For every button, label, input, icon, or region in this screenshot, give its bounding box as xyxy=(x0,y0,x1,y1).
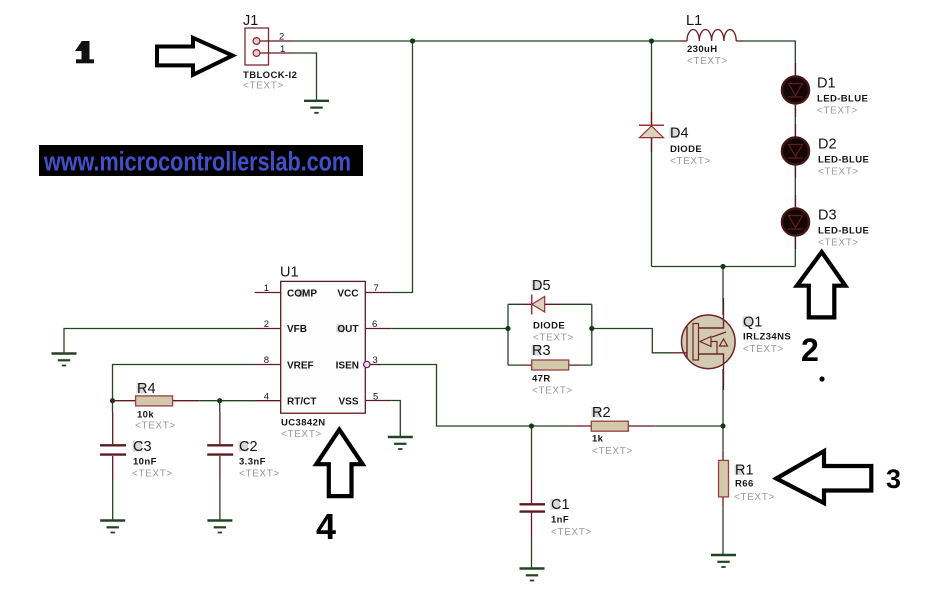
svg-text:<TEXT>: <TEXT> xyxy=(532,386,573,397)
arrow 4 pointing up under U1 xyxy=(316,430,362,497)
svg-text:<TEXT>: <TEXT> xyxy=(687,56,728,67)
svg-text:<TEXT>: <TEXT> xyxy=(817,106,858,117)
svg-text:<TEXT>: <TEXT> xyxy=(743,344,784,355)
ground at VFB xyxy=(52,354,77,366)
svg-text:LED-BLUE: LED-BLUE xyxy=(818,226,869,237)
svg-text:OUT: OUT xyxy=(337,324,358,335)
wire C3 column xyxy=(112,401,114,520)
svg-text:UC3842N: UC3842N xyxy=(281,418,326,429)
svg-text:TBLOCK-I2: TBLOCK-I2 xyxy=(243,70,297,81)
junction node top rail / VCC riser xyxy=(410,38,415,43)
svg-text:<TEXT>: <TEXT> xyxy=(135,421,176,432)
arrow 3 pointing left at R1 xyxy=(776,451,871,503)
svg-text:R66: R66 xyxy=(735,479,754,490)
svg-text:D5: D5 xyxy=(532,278,551,294)
connector J1 xyxy=(243,13,297,92)
junction node R2 rail / Q1 source / R1 xyxy=(720,423,725,428)
wire R1 column xyxy=(722,426,724,554)
svg-text:<TEXT>: <TEXT> xyxy=(239,469,280,480)
svg-text:230uH: 230uH xyxy=(687,44,718,55)
svg-text:47R: 47R xyxy=(532,374,551,385)
svg-text:R1: R1 xyxy=(735,463,754,479)
wire D5/R3 parallel frame left side xyxy=(507,304,509,365)
svg-text:LED-BLUE: LED-BLUE xyxy=(817,94,868,105)
capacitor C3 10nF xyxy=(100,412,173,480)
svg-text:10nF: 10nF xyxy=(133,457,157,468)
svg-text:8: 8 xyxy=(264,355,269,366)
LED D2 xyxy=(782,124,869,178)
svg-text:R3: R3 xyxy=(532,343,551,359)
svg-text:1: 1 xyxy=(264,283,269,294)
wire Q1 drain up to LED-chain bottom rail xyxy=(722,267,724,316)
wire Q1 source down to R2 rail xyxy=(722,369,724,426)
svg-text:VCC: VCC xyxy=(337,289,358,300)
ground at C2 xyxy=(207,521,232,533)
wire from L1 to top-right corner and down to D1 xyxy=(743,41,795,267)
ground at R1 xyxy=(711,555,736,567)
svg-text:<TEXT>: <TEXT> xyxy=(734,492,775,503)
arrow 2 pointing up near LEDs xyxy=(797,252,845,317)
U1 pin 3 ISEN stub with bubble xyxy=(364,355,380,368)
small dot under label 2 xyxy=(819,376,824,381)
svg-text:VREF: VREF xyxy=(287,361,314,372)
wire VREF pin 8 down to R4 node xyxy=(113,365,255,401)
svg-text:C1: C1 xyxy=(551,497,570,513)
U1 pin 5 VSS stub xyxy=(365,392,392,403)
wire C1 column xyxy=(531,426,533,568)
wire J1 pin 1 to ground xyxy=(294,53,317,100)
svg-text:1nF: 1nF xyxy=(551,515,569,526)
svg-text:<TEXT>: <TEXT> xyxy=(670,156,711,167)
resistor R3 47R xyxy=(521,343,580,397)
U1 pin 8 VREF stub xyxy=(255,355,281,366)
svg-text:www.microcontrollerslab.com: www.microcontrollerslab.com xyxy=(43,147,351,177)
ground at J1 pin 1 xyxy=(304,101,329,113)
svg-text:<TEXT>: <TEXT> xyxy=(281,429,322,440)
U1 pin 2 VFB stub xyxy=(255,319,281,330)
ground at C1 xyxy=(520,569,545,581)
svg-text:Q1: Q1 xyxy=(743,315,762,331)
wire C2 column xyxy=(219,401,221,520)
svg-text:VSS: VSS xyxy=(338,397,358,408)
wire R2 rail xyxy=(532,425,724,427)
svg-text:LED-BLUE: LED-BLUE xyxy=(818,155,869,166)
svg-text:C3: C3 xyxy=(133,439,152,455)
wire gate route from D5/R3 node to Q1 xyxy=(592,329,671,353)
svg-text:C2: C2 xyxy=(239,439,258,455)
wire D5 top branch xyxy=(508,303,592,305)
svg-text:2: 2 xyxy=(279,32,284,43)
svg-text:D3: D3 xyxy=(818,208,837,224)
wire RT/CT pin 4 to R4 right node xyxy=(200,400,255,402)
diode D5 xyxy=(523,278,574,344)
svg-text:<TEXT>: <TEXT> xyxy=(592,446,633,457)
wire ISEN pin 3 route down to R2 rail xyxy=(380,365,532,427)
svg-text:6: 6 xyxy=(372,319,377,330)
svg-text:DIODE: DIODE xyxy=(670,144,702,155)
wire VSS pin 5 to ground xyxy=(392,401,401,437)
svg-text:COMP: COMP xyxy=(287,289,317,300)
transistor Q1 IRLZ34NS xyxy=(671,298,791,390)
svg-text:1: 1 xyxy=(280,44,285,55)
U1 pin 6 OUT stub xyxy=(365,319,392,330)
svg-text:VFB: VFB xyxy=(287,324,307,335)
ground at VSS xyxy=(388,437,413,449)
ground at C3 xyxy=(100,521,125,533)
capacitor C2 3.3nF xyxy=(207,412,280,480)
svg-text:3: 3 xyxy=(886,464,901,494)
svg-text:D4: D4 xyxy=(670,126,689,142)
LED D3 xyxy=(782,195,869,249)
LED D1 xyxy=(782,63,868,117)
junction node R2 rail / C1 xyxy=(529,423,534,428)
svg-text:4: 4 xyxy=(264,392,269,403)
svg-text:5: 5 xyxy=(373,392,378,403)
svg-text:1k: 1k xyxy=(592,434,604,445)
inductor L1 230uH xyxy=(680,13,743,67)
svg-text:R4: R4 xyxy=(137,381,156,397)
resistor R1 R66 xyxy=(719,451,775,508)
U1 pin 7 VCC stub xyxy=(365,283,392,294)
wire VCC riser from top rail to pin 7 xyxy=(392,41,413,293)
svg-text:J1: J1 xyxy=(243,13,258,29)
op-amp U1 UC3842N body xyxy=(280,265,365,441)
junction node D5-R3 right xyxy=(589,326,594,331)
svg-text:4: 4 xyxy=(316,506,336,547)
svg-text:L1: L1 xyxy=(686,13,702,29)
svg-text:DIODE: DIODE xyxy=(533,321,565,332)
U1 pin 1 COMP stub xyxy=(255,283,281,294)
label 1 xyxy=(75,41,94,63)
svg-text:3: 3 xyxy=(373,355,378,366)
wire R3 bottom branch xyxy=(508,364,592,366)
junction node OUT / D5-R3 left xyxy=(505,326,510,331)
junction node VREF/R4 xyxy=(110,398,115,403)
arrow 1 pointing right at J1 xyxy=(157,38,233,75)
svg-text:U1: U1 xyxy=(280,265,299,281)
svg-text:RT/CT: RT/CT xyxy=(287,397,316,408)
svg-text:D2: D2 xyxy=(818,137,837,153)
svg-text:ISEN: ISEN xyxy=(336,361,359,372)
svg-text:<TEXT>: <TEXT> xyxy=(132,469,173,480)
wire D5/R3 parallel frame right side xyxy=(591,304,593,365)
svg-text:D1: D1 xyxy=(817,76,836,92)
wire top rail from J1 pin 2 to L1 xyxy=(294,40,680,42)
svg-text:10k: 10k xyxy=(137,410,154,421)
wire VFB pin 2 to left ground xyxy=(64,329,255,353)
svg-text:7: 7 xyxy=(374,283,379,294)
black banner www.microcontrollerslab.com xyxy=(39,145,363,177)
resistor R4 10k xyxy=(113,381,200,432)
svg-text:R2: R2 xyxy=(592,405,611,421)
diode D4 xyxy=(639,112,711,167)
wire D4 vertical branch xyxy=(651,41,653,267)
svg-text:2: 2 xyxy=(801,332,819,368)
svg-text:<TEXT>: <TEXT> xyxy=(243,81,284,92)
junction node LED rail / Q1 drain xyxy=(720,264,725,269)
svg-text:3.3nF: 3.3nF xyxy=(239,457,266,468)
resistor R2 1k xyxy=(574,405,655,457)
svg-text:<TEXT>: <TEXT> xyxy=(818,167,859,178)
svg-text:IRLZ34NS: IRLZ34NS xyxy=(743,332,791,343)
svg-text:<TEXT>: <TEXT> xyxy=(818,238,859,249)
wire OUT pin 6 to D5/R3 left node xyxy=(392,328,508,330)
U1 pin 4 RT/CT stub xyxy=(255,392,281,403)
capacitor C1 1nF xyxy=(520,480,592,538)
svg-text:2: 2 xyxy=(264,319,269,330)
wire bottom of LED chain to D4 bottom xyxy=(652,266,796,268)
svg-text:<TEXT>: <TEXT> xyxy=(551,527,592,538)
svg-text:<TEXT>: <TEXT> xyxy=(533,333,574,344)
junction node top rail / D4 branch xyxy=(649,38,654,43)
junction node R4/C2/RTCT xyxy=(217,398,222,403)
